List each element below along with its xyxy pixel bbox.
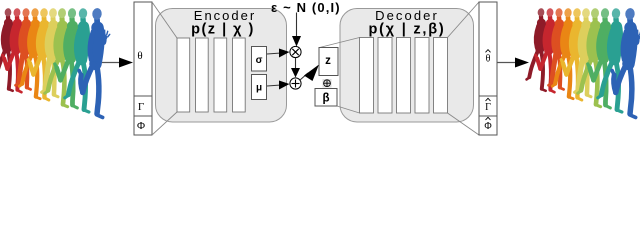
decoder rounded box	[340, 9, 474, 123]
encoder layer bar 3	[214, 38, 227, 112]
arrow: epsilon to multiply	[292, 13, 301, 47]
input pose sequence (left rainbow figures)	[0, 8, 110, 118]
svg-text:z: z	[325, 55, 331, 67]
arrow: multiply to plus	[291, 58, 300, 78]
svg-text:θ: θ	[137, 50, 142, 62]
decoder layer bar 4	[415, 38, 429, 114]
svg-text:p(z | χ ): p(z | χ )	[191, 22, 255, 38]
svg-text:μ: μ	[256, 83, 262, 94]
arrow: plus to z	[300, 65, 319, 82]
output pose sequence (right rainbow figures)	[527, 8, 640, 118]
divider lines input box	[134, 95, 152, 97]
decoder layer bar 1	[360, 38, 374, 114]
connector: chi box to encoder bars (top)	[152, 2, 177, 38]
decoder layer bar 2	[378, 38, 392, 114]
svg-text:σ: σ	[256, 55, 263, 66]
arrow: input to chi box	[97, 58, 133, 68]
connector: decoder bars to output box (top)	[448, 2, 480, 38]
divider lines output box	[479, 95, 497, 97]
input feature column box	[134, 2, 152, 135]
svg-text:β: β	[322, 93, 329, 105]
svg-text:Φ: Φ	[484, 121, 491, 132]
svg-text:θ: θ	[486, 54, 491, 65]
encoder rounded box	[156, 9, 287, 123]
encoder layer bar 1	[177, 38, 190, 112]
svg-text:Γ: Γ	[138, 101, 144, 113]
concat node	[323, 79, 332, 88]
arrow: output box to output figures	[497, 58, 529, 68]
encoder layer bar 4	[233, 38, 246, 112]
connector: beta box to decoder bars (bottom)	[337, 106, 360, 113]
sigma box	[252, 47, 267, 72]
svg-text:Φ: Φ	[137, 120, 145, 132]
svg-text:ε ~ N (0,I): ε ~ N (0,I)	[271, 0, 341, 15]
plus node	[290, 78, 301, 89]
z box	[319, 48, 338, 76]
connector: decoder bars to output box (bottom)	[448, 113, 480, 135]
output feature column box	[479, 2, 497, 135]
arrow: sigma to multiply	[267, 49, 290, 58]
multiply node	[290, 46, 301, 57]
mu box	[252, 75, 267, 100]
decoder layer bar 5	[434, 38, 448, 114]
connector: z box to decoder bars (top)	[320, 38, 360, 48]
svg-text:p(χ | z,β): p(χ | z,β)	[368, 22, 445, 38]
svg-text:Γ: Γ	[485, 102, 491, 113]
beta box	[315, 89, 337, 107]
connector: chi box to encoder bars (bottom)	[152, 112, 177, 135]
decoder layer bar 3	[397, 38, 411, 114]
encoder layer bar 2	[196, 38, 209, 112]
arrow: mu to plus	[267, 81, 290, 90]
